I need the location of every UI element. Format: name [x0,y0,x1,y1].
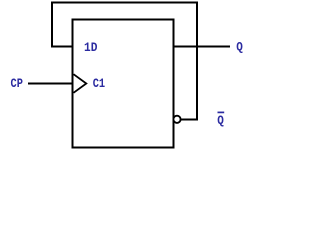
wire: Q-bar stub from bubble to feedback corner [182,119,197,121]
wire: feedback right vertical segment [196,3,198,120]
wire: feedback left vertical segment [51,3,53,47]
wire: CP clock input [29,83,73,85]
svg-text:CP: CP [11,77,23,91]
net label Q-bar [217,112,224,128]
clock edge-trigger triangle at C1 pin [74,74,87,93]
svg-text:C1: C1 [93,77,105,91]
flip-flop U1 body [73,20,174,148]
wire: feedback top horizontal segment [52,2,197,4]
svg-text:Q: Q [217,114,224,128]
wire: 1D input segment (body left edge to feedback corner) [52,46,73,48]
inversion bubble on Q-bar output [173,116,180,123]
wire: Q output [174,46,230,48]
svg-text:1D: 1D [84,41,98,55]
svg-text:Q: Q [236,40,243,54]
